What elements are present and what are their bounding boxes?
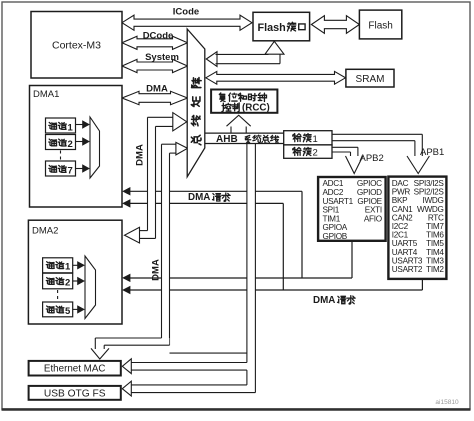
svg-text:DMA2: DMA2	[32, 226, 58, 237]
block Ethernet MAC	[29, 361, 121, 376]
svg-text:7: 7	[68, 165, 73, 176]
wire ch1 arrow	[76, 124, 84, 126]
bus ICode double arrow	[122, 15, 252, 30]
bus DMA2-to-busmatrix hollow L-path	[125, 113, 187, 243]
wire ch2 arrow dma2	[73, 280, 78, 282]
wire RCC up-arrow from AHB bus	[230, 127, 232, 134]
block APB1 peripherals	[388, 177, 446, 279]
svg-text:2: 2	[65, 278, 70, 289]
svg-text:ai15810: ai15810	[435, 399, 459, 406]
svg-text:2: 2	[68, 139, 73, 150]
block Flash	[359, 10, 401, 39]
svg-text:GPIOC: GPIOC	[357, 179, 382, 188]
svg-text:SRAM: SRAM	[356, 74, 385, 85]
svg-text:2: 2	[313, 148, 318, 159]
wire DMA request net from APB1 to DMA1/DMA2	[421, 279, 423, 290]
svg-text:AFIO: AFIO	[364, 214, 382, 223]
bus Flash interface to Flash double arrow	[311, 16, 359, 34]
block USB OTG FS	[29, 386, 121, 400]
wire DMA request net from APB2 to DMA1/DMA2	[351, 241, 353, 278]
svg-text:TIM1: TIM1	[323, 214, 341, 223]
wire bridge1 to APB1 peripherals	[332, 133, 422, 135]
block channel2 of DMA2	[43, 273, 73, 289]
wire ch1 arrow dma2	[73, 264, 78, 266]
svg-text:1: 1	[68, 122, 74, 133]
svg-text:DCode: DCode	[143, 31, 174, 42]
funnel DMA2	[85, 256, 96, 319]
bus DMA1 double arrow	[122, 91, 188, 104]
svg-text:Cortex-M3: Cortex-M3	[52, 40, 101, 52]
block channel7 of DMA1	[46, 161, 76, 176]
block bridge1	[284, 131, 332, 145]
bus matrix parallelogram	[187, 29, 205, 177]
svg-text:USB OTG FS: USB OTG FS	[44, 389, 106, 400]
svg-text:Flash: Flash	[258, 22, 286, 34]
wire dashed between ch2 ch7	[60, 151, 62, 161]
svg-text:ICode: ICode	[173, 7, 199, 18]
svg-text:System: System	[145, 52, 179, 63]
svg-text:TIM2: TIM2	[426, 265, 444, 274]
svg-text:DMA: DMA	[146, 84, 168, 95]
wire ch5 arrow dma2	[73, 308, 78, 310]
block RCC reset and clock control	[211, 90, 277, 113]
block bridge2	[284, 145, 332, 158]
block channel1 of DMA1	[46, 118, 76, 133]
svg-text:USART1: USART1	[323, 197, 354, 206]
svg-text:APB2: APB2	[360, 153, 384, 164]
wire stub above ethernet branch	[170, 352, 247, 354]
wire bridge2 to APB2 peripherals	[332, 146, 358, 148]
svg-text:Ethernet MAC: Ethernet MAC	[44, 364, 106, 375]
svg-text:GPIOB: GPIOB	[323, 232, 348, 241]
svg-text:(RCC): (RCC)	[242, 103, 270, 114]
svg-text:AHB: AHB	[216, 134, 238, 145]
bus AHB riser to Ethernet MAC and USB OTG hollow path	[122, 144, 255, 397]
block Flash interface	[253, 12, 310, 41]
svg-text:ADC1: ADC1	[323, 179, 344, 188]
block SRAM	[346, 69, 394, 87]
wire ch7 arrow	[76, 168, 84, 170]
block channel1 of DMA2	[43, 258, 73, 273]
svg-text:GPIOE: GPIOE	[357, 197, 382, 206]
node arrowheads into DMA1	[123, 188, 130, 195]
svg-text:GPIOD: GPIOD	[357, 188, 382, 197]
svg-text:DMA: DMA	[188, 192, 210, 203]
block DMA1	[30, 86, 123, 208]
svg-text:DMA: DMA	[135, 144, 146, 166]
block channel2 of DMA1	[46, 135, 76, 150]
node arrowheads into DMA2	[123, 274, 130, 281]
bus System double arrow	[122, 59, 188, 72]
svg-text:GPIOA: GPIOA	[323, 223, 348, 232]
block Cortex-M3	[31, 12, 122, 79]
svg-text:ADC2: ADC2	[323, 188, 344, 197]
wire dashed between ch2 ch5	[57, 290, 59, 301]
svg-text:USART2: USART2	[392, 265, 423, 274]
block DMA2	[28, 220, 122, 324]
block APB2 peripherals	[318, 177, 386, 241]
wire busmatrix to Flash interface L-path	[206, 52, 217, 67]
svg-text:SPI1: SPI1	[323, 206, 340, 215]
bus SRAM double arrow	[206, 71, 346, 84]
svg-text:DMA: DMA	[313, 295, 335, 306]
wire USB OTG right-entry shaft	[130, 384, 247, 386]
funnel DMA1	[90, 117, 100, 178]
bus Ethernet-to-busmatrix hollow L-path	[91, 142, 188, 359]
bus DCode double arrow	[122, 36, 188, 49]
svg-text:DMA1: DMA1	[33, 89, 59, 100]
svg-text:5: 5	[65, 306, 71, 317]
svg-text:APB1: APB1	[420, 147, 444, 158]
svg-text:1: 1	[313, 134, 318, 145]
wire ch2 arrow	[76, 141, 84, 143]
svg-text:Flash: Flash	[368, 21, 392, 32]
svg-text:DMA: DMA	[151, 259, 162, 281]
svg-text:1: 1	[65, 262, 71, 273]
block channel5 of DMA2	[43, 302, 73, 317]
svg-text:EXTI: EXTI	[365, 206, 382, 215]
wire Ethernet MAC right-entry shaft	[130, 362, 247, 364]
bus AHB system bus bar	[205, 133, 284, 143]
label bus matrix (zong xian ju zhen rotated)	[191, 135, 201, 145]
